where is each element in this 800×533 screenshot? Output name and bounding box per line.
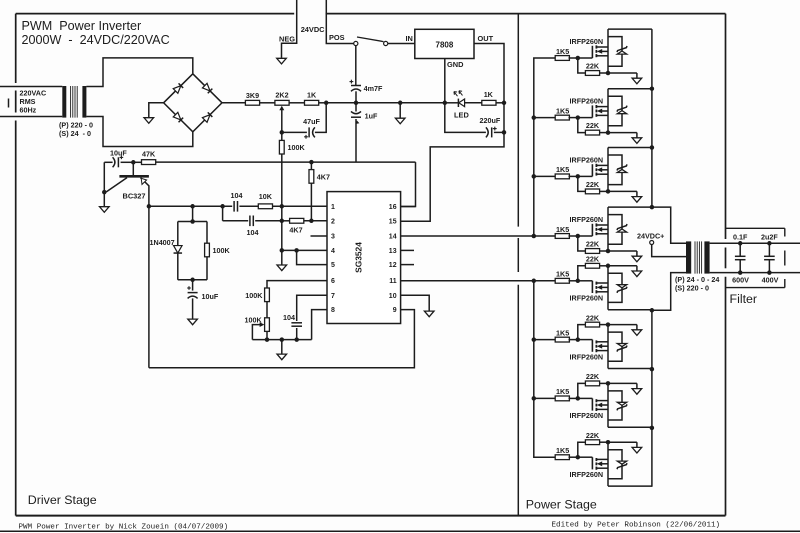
wire Q5 gate: [578, 280, 593, 282]
svg-text:1N4007: 1N4007: [150, 238, 175, 247]
capacitor C9 0.1F: [739, 243, 741, 256]
ground bridge negative: [148, 116, 150, 119]
node pot bottom: [265, 337, 270, 342]
transistor Q5 channel: [595, 290, 597, 293]
svg-text:100K: 100K: [245, 291, 263, 300]
transistor Q1 base bar: [119, 175, 148, 178]
node wiper-pin1 junction: [280, 204, 285, 209]
diode D5 body symbol: [617, 285, 626, 288]
transistor Q3 channel: [595, 164, 597, 167]
wire 2K2 wiper junction: [280, 130, 285, 135]
diode LED1: [457, 99, 459, 107]
wire Q8 rail arm: [608, 485, 652, 487]
wire pin10 to ground: [401, 295, 430, 311]
svg-text:60Hz: 60Hz: [20, 106, 37, 115]
resistor 1K5 (Q7 gate): [555, 396, 569, 401]
filter box top edge: [726, 227, 785, 229]
trimmer R2 wiper arrow: [279, 106, 284, 111]
switch SW1 lever: [357, 37, 384, 42]
wire switch to 7808 IN: [388, 43, 415, 45]
wire 1uF to pin16 line: [355, 119, 357, 162]
wire lower rail to transformer: [652, 273, 686, 311]
transistor Q5 source arrow: [597, 285, 602, 290]
node pin1 row drop: [220, 204, 225, 209]
transistor Q2 channel: [595, 105, 597, 108]
wire R1-R2: [260, 102, 275, 104]
wire Q8 source to ground: [608, 441, 637, 443]
wire base to 47K: [133, 161, 141, 163]
svg-text:1K5: 1K5: [556, 387, 569, 396]
svg-text:OUT: OUT: [478, 34, 494, 43]
node pin4 pin5 link: [294, 248, 299, 253]
node 4K7a top: [309, 160, 314, 165]
svg-text:IRFP260N: IRFP260N: [570, 470, 604, 479]
transistor Q4 drain stub: [596, 224, 608, 226]
wire node to 4K7b: [282, 220, 290, 222]
capacitor C2 4m7F electrolytic: [355, 46, 357, 86]
wire 24VDC POS line: [326, 0, 353, 44]
bridge diode D4 bottom-right: [202, 112, 212, 122]
bridge diode D2 top-right: [202, 83, 212, 93]
svg-text:LED: LED: [454, 111, 469, 120]
svg-text:100K: 100K: [213, 246, 231, 255]
svg-text:1: 1: [331, 204, 335, 211]
svg-text:2u2F: 2u2F: [761, 232, 778, 241]
transistor Q2 gate bar: [591, 105, 593, 117]
svg-text:2: 2: [331, 218, 335, 225]
transistor Q3 source arrow: [597, 167, 602, 172]
svg-text:7: 7: [331, 293, 335, 300]
svg-text:1K5: 1K5: [556, 270, 569, 279]
node pin4 gnd: [280, 248, 285, 253]
capacitor C5 10uF electrolytic: [104, 161, 112, 163]
resistor 1K5 (Q1 gate): [555, 56, 569, 61]
node group top: [190, 219, 195, 224]
ground Q6: [636, 325, 638, 330]
node filter cap2 top: [767, 241, 772, 246]
ground rail tap: [399, 103, 401, 118]
trimmer R2 2K2: [275, 100, 289, 105]
wire bridge negative to ground: [149, 103, 164, 117]
wire 7808 GND: [444, 59, 446, 103]
wire pin12 stub: [401, 264, 414, 266]
node gnd row mid: [280, 337, 285, 342]
wire bridge plus to R1: [222, 102, 245, 104]
wire Q1 rail arm: [608, 28, 652, 30]
transformer T1 primary bar: [62, 86, 66, 118]
diode D6 body symbol: [617, 344, 626, 347]
capacitor C7 104: [249, 216, 251, 227]
wire pin7 row: [297, 295, 327, 321]
wire wiper to 47uF: [282, 131, 307, 133]
svg-text:1K5: 1K5: [556, 165, 569, 174]
svg-text:16: 16: [389, 204, 397, 211]
svg-text:4m7F: 4m7F: [364, 84, 383, 93]
svg-text:4K7: 4K7: [289, 225, 302, 234]
potentiometer R11 wiper arrow: [260, 322, 265, 327]
svg-text:0.1F: 0.1F: [733, 232, 748, 241]
svg-text:6: 6: [331, 278, 335, 285]
wire bus A block3 feed: [534, 175, 556, 177]
svg-text:24VDC+: 24VDC+: [637, 232, 664, 241]
transistor Q1 source arrow: [597, 49, 602, 54]
wire emitter to ground node: [104, 191, 106, 193]
wire Q7 source to ground: [608, 382, 637, 384]
ground pin10: [428, 310, 430, 312]
gate bus B: [534, 281, 556, 457]
svg-text:9: 9: [393, 307, 397, 314]
wire Q4 rail arm: [608, 206, 652, 208]
wire bus B block6 feed: [534, 339, 556, 341]
AC input wire bottom: [0, 116, 62, 118]
transformer T2 secondary bar: [704, 241, 709, 273]
resistor 22K (Q3 gate-source): [578, 176, 586, 191]
svg-text:IRFP260N: IRFP260N: [570, 352, 604, 361]
svg-text:8: 8: [331, 307, 335, 314]
resistor 22K (Q8 gate-source): [578, 442, 586, 457]
transistor Q3 gate bar: [591, 164, 593, 176]
svg-text:7808: 7808: [436, 41, 454, 50]
svg-text:104: 104: [247, 228, 259, 237]
wire Q5 rail arm: [608, 309, 652, 311]
transistor Q6 source arrow: [597, 344, 602, 349]
transformer T2 primary bar: [686, 241, 691, 273]
wire Q3 source to ground: [608, 190, 637, 192]
svg-text:104: 104: [283, 313, 295, 322]
node collector junction: [147, 204, 152, 209]
wire 47uF to rail: [315, 103, 326, 133]
svg-text:10uF: 10uF: [202, 292, 219, 301]
wire +8V to pin15: [401, 132, 504, 221]
svg-text:22K: 22K: [586, 372, 600, 381]
svg-text:POS: POS: [329, 33, 345, 42]
wire pin13 stub: [401, 249, 414, 251]
svg-text:1K5: 1K5: [556, 328, 569, 337]
resistor 1K5 (Q2 gate): [555, 115, 569, 120]
wire Q1 gate: [578, 57, 593, 59]
wire between 100K and pot: [266, 302, 268, 318]
resistor 22K (Q1 gate-source): [578, 58, 586, 73]
ground Q5: [636, 266, 638, 271]
transistor Q1 gate bar: [591, 46, 593, 58]
ground pin4: [281, 250, 283, 265]
wire secondary bottom to bridge: [86, 117, 192, 147]
transformer T1 core lines: [70, 86, 72, 118]
wire R3 to rail junction: [319, 102, 327, 104]
node rail block2: [650, 86, 655, 91]
node rail block3: [650, 145, 655, 150]
wire pin9 feedback: [149, 310, 415, 368]
capacitor C8 104 vertical: [291, 322, 302, 324]
wire pin4 row: [282, 249, 327, 251]
wire Q4 gate: [578, 235, 593, 237]
transistor Q4 source stub: [596, 233, 608, 235]
bottom rule full width: [0, 530, 800, 532]
node wiper-pin2 junction: [280, 219, 285, 224]
transistor Q4 gate bar: [591, 224, 593, 236]
node Q4 gate junction: [576, 234, 581, 239]
wire pot bottom: [266, 331, 268, 339]
wire drop to pin2 row: [222, 206, 224, 221]
wire Q2 drain-source riser: [607, 89, 609, 133]
diode D2 body symbol: [617, 111, 626, 114]
wire Q4 source to ground: [608, 250, 637, 252]
svg-text:22K: 22K: [586, 313, 600, 322]
transistor Q4 channel: [595, 223, 597, 226]
node rail 7808 gnd: [443, 101, 448, 106]
node Q2 source junction: [606, 130, 611, 135]
resistor 1K5 (Q4 gate): [555, 234, 569, 239]
svg-text:22K: 22K: [586, 62, 600, 71]
diode D9 1N4007: [177, 222, 179, 246]
svg-text:Driver Stage: Driver Stage: [28, 493, 97, 507]
diode D3 body symbol: [617, 169, 626, 172]
svg-text:1K5: 1K5: [556, 446, 569, 455]
transistor Q1 drain stub: [596, 46, 608, 48]
transistor Q8 channel: [595, 467, 597, 470]
regulator U2 7808 box: [415, 29, 474, 58]
resistor 22K (Q7 gate-source): [578, 383, 586, 398]
node Q1 gate junction: [576, 56, 581, 61]
wire 7808 OUT down: [474, 44, 504, 103]
stage divider line: [517, 14, 519, 227]
switch SW1 terminal 2: [384, 41, 388, 45]
node bus A block3: [532, 174, 537, 179]
frame outer border left: [15, 14, 17, 83]
diode D8 body loop: [608, 450, 622, 479]
gate bus A: [534, 58, 556, 236]
svg-text:IN: IN: [406, 34, 413, 43]
transformer T1 secondary bar: [82, 86, 86, 118]
wire secondary top out: [710, 242, 800, 244]
resistor R12 100K: [206, 222, 208, 244]
filter box right segments: [784, 228, 786, 236]
transistor Q5 source stub: [596, 282, 608, 284]
node Q7 source junction: [606, 381, 611, 386]
wire 4K7b to pin2: [304, 220, 327, 222]
transistor Q5 drain stub: [596, 291, 608, 293]
svg-text:2K2: 2K2: [275, 91, 288, 100]
transistor Q8 source arrow: [597, 461, 602, 466]
wire 220uF return to rail: [445, 103, 486, 133]
potentiometer R11 100K vertical: [265, 318, 270, 332]
capacitor C10 2u2F: [768, 243, 770, 256]
wire Q7 gate: [578, 397, 593, 399]
resistor R5 1K: [482, 100, 496, 105]
diode D1 body symbol: [617, 51, 626, 54]
svg-text:Power Stage: Power Stage: [526, 498, 597, 512]
node 1N4007 tap: [190, 204, 195, 209]
diode D4 body loop: [608, 215, 622, 245]
node bus B block7: [532, 396, 537, 401]
svg-text:22K: 22K: [586, 180, 600, 189]
transistor Q6 drain stub: [596, 350, 608, 352]
svg-text:10uF: 10uF: [110, 149, 127, 158]
capacitor C1 47uF electrolytic: [308, 127, 310, 137]
svg-text:1K: 1K: [484, 90, 494, 99]
transistor Q1 emitter: [106, 178, 127, 192]
ground NEG: [281, 57, 283, 60]
wire 47K long line to pin16: [156, 161, 416, 163]
diode D2 body loop: [608, 96, 622, 126]
svg-text:22K: 22K: [586, 240, 600, 249]
node rail block5 tap: [650, 308, 655, 313]
wire R5 to node: [496, 102, 504, 104]
ground Q1: [636, 73, 638, 78]
node Q8 source junction: [606, 440, 611, 445]
ground 10uF: [192, 318, 194, 321]
transistor Q6 source stub: [596, 341, 608, 343]
transistor Q3 source stub: [596, 173, 608, 175]
transistor Q1 BC327 base lead: [132, 162, 134, 175]
node rail block7: [650, 426, 655, 431]
node filter cap2 bottom: [767, 270, 772, 275]
node emitter ground: [102, 190, 107, 195]
wire Q2 gate: [578, 117, 593, 119]
wire 24VDC+ center tap: [652, 245, 686, 257]
wire Q3 drain-source riser: [607, 148, 609, 192]
wire secondary top to bridge: [86, 58, 192, 87]
ground Q7: [636, 383, 638, 388]
resistor 1K5 (Q5 gate): [555, 278, 569, 283]
resistor R4 100K vertical: [281, 132, 283, 140]
resistor 1K5 (Q3 gate): [555, 174, 569, 179]
node Q2 gate junction: [576, 115, 581, 120]
node rail block6: [650, 367, 655, 372]
svg-text:12: 12: [389, 262, 397, 269]
svg-text:1K5: 1K5: [556, 47, 569, 56]
svg-text:10: 10: [389, 293, 397, 300]
ground Q3: [636, 191, 638, 196]
transistor Q7 drain stub: [596, 408, 608, 410]
diode D8 body symbol: [617, 461, 626, 464]
capacitor C11 10uF electrolytic: [192, 280, 194, 291]
wire pin6 row: [267, 281, 327, 288]
svg-text:(S) 24 - 0: (S) 24 - 0: [59, 129, 91, 138]
wire pin8 row: [312, 310, 327, 340]
node pin2 4K7a junction: [309, 219, 314, 224]
transistor Q1 collector with arrow: [141, 178, 149, 207]
wire Q2 source to ground: [608, 132, 637, 134]
capacitor C4 220uF electrolytic: [503, 103, 505, 133]
node rail LED right: [502, 101, 507, 106]
svg-text:15: 15: [389, 218, 397, 225]
svg-text:IRFP260N: IRFP260N: [570, 97, 604, 106]
diode D4 body symbol: [617, 229, 626, 232]
svg-text:47K: 47K: [142, 150, 156, 159]
resistor R1 3K9: [245, 100, 259, 105]
wire Q5 drain-source riser: [607, 266, 609, 310]
ground Q8: [636, 442, 638, 447]
wire 10K to pin1: [273, 205, 328, 207]
svg-text:IRFP260N: IRFP260N: [570, 294, 604, 303]
transistor Q8 source stub: [596, 458, 608, 460]
resistor 22K (Q6 gate-source): [578, 325, 586, 340]
wire Q1 source to ground: [608, 72, 637, 74]
svg-text:22K: 22K: [586, 121, 600, 130]
transistor Q8 gate bar: [591, 457, 593, 469]
svg-text:13: 13: [389, 248, 397, 255]
svg-text:PWM Power Inverter: PWM Power Inverter: [22, 19, 142, 33]
svg-text:IRFP260N: IRFP260N: [570, 411, 604, 420]
transistor Q5 gate bar: [591, 281, 593, 293]
resistor R7 4K7 vertical: [310, 162, 312, 170]
svg-text:22K: 22K: [586, 431, 600, 440]
node BC327 base: [131, 160, 136, 165]
svg-text:3K9: 3K9: [246, 91, 259, 100]
svg-text:IRFP260N: IRFP260N: [570, 155, 604, 164]
transistor Q1 channel: [595, 45, 597, 48]
transistor Q6 gate bar: [591, 340, 593, 352]
wire Q2 rail arm: [608, 88, 652, 90]
capacitor C6 104: [233, 201, 235, 212]
node rail at 4m7F: [354, 101, 359, 106]
right rail lower bank: [651, 310, 653, 486]
node Q3 gate junction: [576, 174, 581, 179]
wire Q6 drain-source riser: [607, 325, 609, 369]
wire pin3 stub: [311, 235, 328, 237]
diode D7 body symbol: [617, 402, 626, 405]
wire pin2 row left: [223, 220, 249, 222]
svg-text:14: 14: [389, 234, 397, 241]
IC U1 SG3524 box: [327, 192, 401, 324]
frame outer border top: [16, 13, 295, 15]
transistor Q7 source arrow: [597, 403, 602, 408]
transformer T2 core lines: [694, 241, 696, 273]
wire 1N4007 group top stub: [192, 206, 194, 221]
transistor Q4 source arrow: [597, 227, 602, 232]
frame outer border bottom: [16, 515, 726, 517]
svg-text:Edited by Peter Robinson (22/0: Edited by Peter Robinson (22/06/2011): [552, 521, 721, 529]
svg-text:104: 104: [231, 191, 243, 200]
wire Q8 drain-source riser: [607, 442, 609, 486]
wire pin1 row left segment: [149, 205, 232, 207]
ground logic: [281, 340, 283, 355]
svg-text:1uF: 1uF: [365, 112, 378, 121]
capacitor C3 1uF: [355, 103, 357, 112]
resistor 22K (Q2 gate-source): [578, 118, 586, 133]
node 104c bottom: [294, 337, 299, 342]
svg-text:47uF: 47uF: [303, 117, 320, 126]
filter box bottom edge: [726, 287, 785, 289]
bridge rectifier diamond: [164, 74, 222, 132]
node rail ground tap: [398, 101, 403, 106]
svg-text:PWM Power Inverter by Nick Zou: PWM Power Inverter by Nick Zouein (04/07…: [19, 523, 229, 531]
wire group top edge: [178, 221, 207, 223]
svg-text:220uF: 220uF: [480, 116, 501, 125]
transistor Q7 source stub: [596, 400, 608, 402]
wire Q3 gate: [578, 175, 593, 177]
AC input wire top: [0, 86, 62, 88]
wire 10uF left down: [103, 162, 105, 192]
svg-text:10K: 10K: [259, 192, 273, 201]
svg-text:IRFP260N: IRFP260N: [570, 215, 604, 224]
resistor 22K (Q5 gate-source): [578, 266, 586, 281]
transistor Q2 drain stub: [596, 106, 608, 108]
svg-text:GND: GND: [447, 60, 464, 69]
svg-text:2000W - 24VDC/220VAC: 2000W - 24VDC/220VAC: [22, 33, 170, 47]
svg-text:600V: 600V: [732, 275, 749, 284]
svg-text:BC327: BC327: [123, 191, 146, 200]
wire Q6 rail arm: [608, 368, 652, 370]
svg-text:1K5: 1K5: [556, 225, 569, 234]
svg-text:Filter: Filter: [730, 292, 758, 306]
wire bus B block7 feed: [534, 397, 556, 399]
wire upper rail to transformer: [652, 207, 686, 243]
node filter cap1 top: [738, 241, 743, 246]
transistor Q7 gate bar: [591, 398, 593, 410]
svg-text:24VDC: 24VDC: [301, 25, 325, 34]
